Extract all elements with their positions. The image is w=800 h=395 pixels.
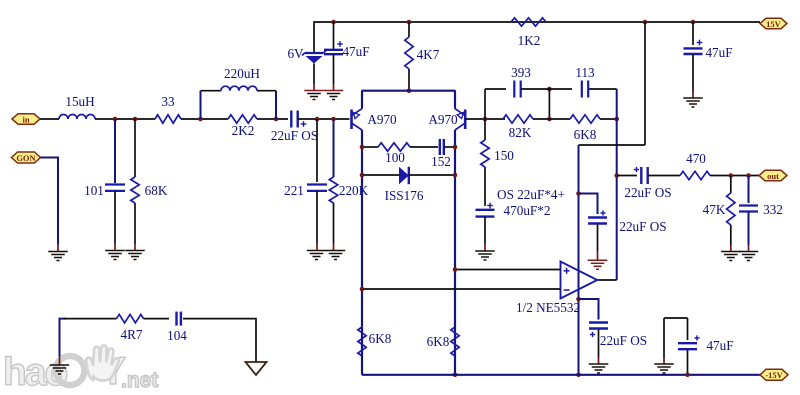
svg-text:6K8: 6K8 <box>427 334 450 349</box>
ground <box>588 260 608 269</box>
diode D2 ISS176 <box>399 167 409 184</box>
svg-text:15V: 15V <box>766 19 782 29</box>
wire <box>663 318 665 358</box>
resistor R12 6K8 <box>451 327 459 356</box>
svg-text:1K2: 1K2 <box>518 33 541 48</box>
wire <box>579 194 598 215</box>
junction <box>331 20 336 25</box>
svg-text:47uF: 47uF <box>705 45 732 60</box>
label R8 82K <box>509 125 532 140</box>
svg-text:4R7: 4R7 <box>121 327 143 342</box>
junction <box>360 145 365 150</box>
label Q2 A970 <box>428 112 458 127</box>
wire <box>275 91 277 119</box>
wire <box>484 167 486 206</box>
svg-text:OS 22uF*4+: OS 22uF*4+ <box>497 187 565 202</box>
ground stem <box>598 358 600 365</box>
resistor R2 2K2 <box>228 115 257 123</box>
label U1 1/2 NE5532 <box>516 300 580 315</box>
capacitor C5 152 <box>440 139 444 155</box>
ground <box>307 251 327 260</box>
label Q1 A970 <box>367 112 397 127</box>
wire <box>60 319 67 356</box>
wire <box>617 175 637 177</box>
junction <box>614 117 619 122</box>
ground <box>324 91 344 100</box>
wire <box>465 118 505 120</box>
ground <box>654 364 674 373</box>
ground <box>105 251 125 260</box>
svg-text:.net: .net <box>121 369 158 392</box>
resistor R8 82K <box>503 115 533 123</box>
svg-text:47K: 47K <box>703 202 726 217</box>
resistor R10 150 <box>481 140 489 167</box>
wire <box>144 318 170 320</box>
wire <box>257 90 276 92</box>
wire <box>454 130 456 375</box>
label R7 100 <box>385 150 405 165</box>
transistor Q2 A970 <box>455 109 465 130</box>
watermark haoDIY.net <box>3 345 158 394</box>
wire <box>333 55 335 85</box>
label R9 6K8 <box>574 127 597 142</box>
label D2 ISS176 <box>385 188 424 203</box>
wire <box>616 89 618 280</box>
wire <box>362 288 561 290</box>
label R12 6K8 <box>427 334 450 349</box>
svg-text:in: in <box>22 114 29 124</box>
junction <box>576 297 581 302</box>
svg-text:332: 332 <box>763 202 783 217</box>
svg-text:out: out <box>767 171 779 181</box>
junction <box>453 173 458 178</box>
wire <box>314 22 760 53</box>
wire <box>597 279 617 281</box>
svg-text:47uF: 47uF <box>706 338 733 353</box>
ground stem <box>333 84 335 91</box>
ground stem <box>316 244 318 251</box>
wire <box>64 318 117 320</box>
ground stem <box>663 358 665 365</box>
wire <box>687 350 689 375</box>
svg-text:220K: 220K <box>339 183 369 198</box>
junction <box>274 117 279 122</box>
svg-text:393: 393 <box>511 65 531 80</box>
ground stem <box>313 84 315 91</box>
svg-text:A970: A970 <box>367 112 397 127</box>
wire <box>333 22 335 49</box>
label R13 470 <box>686 151 706 166</box>
capacitor C8 470uF <box>476 203 495 217</box>
label L2 220uH <box>224 66 260 81</box>
wire <box>313 64 315 85</box>
capacitor C10 22uF OS <box>589 323 608 338</box>
label C12 332 <box>763 202 783 217</box>
op-amp U1 1/2 NE5532 <box>561 262 598 299</box>
label R3 68K <box>145 183 168 198</box>
wire <box>521 88 546 90</box>
ground <box>326 251 346 260</box>
ground <box>304 91 324 100</box>
wire <box>362 374 760 376</box>
wire <box>316 191 318 244</box>
ground stem <box>134 244 136 251</box>
capacitor C3 221 plates <box>307 185 327 191</box>
junction <box>691 20 696 25</box>
resistor R11 6K8 <box>358 327 366 356</box>
port 15V <box>760 18 787 29</box>
wire <box>41 158 59 245</box>
junction <box>113 117 118 122</box>
resistor R4 220K <box>329 177 337 203</box>
wire <box>692 22 694 45</box>
capacitor C12 332 <box>739 206 758 212</box>
junction <box>576 373 581 378</box>
resistor R7 100 <box>378 143 410 151</box>
label R10 150 <box>494 148 514 163</box>
capacitor C6 393 <box>514 81 520 98</box>
capacitor C14 47uF <box>678 335 700 349</box>
inductor L2 220uH <box>221 86 257 91</box>
resistor R9 6K8 <box>570 115 600 123</box>
svg-text:6V: 6V <box>287 46 304 61</box>
wire <box>362 146 378 148</box>
wire <box>333 119 335 177</box>
capacitor C9 22uF OS <box>588 210 607 223</box>
label C14 47uF <box>706 338 733 353</box>
wire <box>298 118 350 120</box>
wire <box>183 319 256 362</box>
junction <box>643 20 648 25</box>
junction <box>360 173 365 178</box>
svg-text:220uH: 220uH <box>224 66 260 81</box>
label C5 152 <box>431 154 451 169</box>
ground <box>589 364 609 373</box>
wire <box>316 119 318 182</box>
wire <box>579 144 646 146</box>
wire <box>40 118 59 120</box>
capacitor C15 104 <box>177 312 181 326</box>
resistor R5 1K2 <box>511 18 546 26</box>
wire <box>362 90 456 92</box>
wire <box>445 146 456 148</box>
label L1 15uH <box>65 94 95 109</box>
label C9 22uF OS <box>619 219 666 234</box>
label C2 101 <box>84 183 104 198</box>
label C8 OS 22uF*4+ <box>497 187 565 202</box>
svg-text:1/2 NE5532: 1/2 NE5532 <box>516 300 580 315</box>
capacitor C7 113 <box>582 81 588 98</box>
wire <box>484 217 486 244</box>
zener D1 6V <box>302 51 326 64</box>
svg-text:15uH: 15uH <box>65 94 95 109</box>
svg-text:22uF OS: 22uF OS <box>619 219 666 234</box>
ground stem <box>114 244 116 251</box>
junction <box>746 173 751 178</box>
ground stem <box>597 251 599 260</box>
wire <box>408 69 410 91</box>
svg-text:82K: 82K <box>509 125 532 140</box>
ground stem <box>57 245 59 252</box>
wire <box>134 119 136 177</box>
wire <box>578 145 580 375</box>
label R6 4K7 <box>417 47 440 62</box>
wire <box>361 91 363 109</box>
ground stem <box>59 356 61 365</box>
wire <box>687 318 689 340</box>
junction <box>547 87 552 92</box>
resistor R13 470 <box>680 171 710 179</box>
wire <box>454 91 456 109</box>
junction <box>198 117 203 122</box>
svg-text:152: 152 <box>431 154 451 169</box>
wire <box>114 119 116 183</box>
wire <box>748 176 750 204</box>
wire <box>200 91 202 119</box>
resistor R1 33 <box>155 115 181 123</box>
wire <box>730 225 732 245</box>
wire <box>362 174 399 176</box>
wire <box>410 146 438 148</box>
resistor R14 47K <box>727 193 735 225</box>
label C6 393 <box>511 65 531 80</box>
label D1 6V <box>287 46 304 61</box>
svg-text:68K: 68K <box>145 183 168 198</box>
label R14 47K <box>703 202 726 217</box>
junction <box>483 117 488 122</box>
wire <box>579 299 599 320</box>
label C13 47uF <box>705 45 732 60</box>
wire <box>533 118 570 120</box>
resistor R15 4R7 <box>117 314 144 322</box>
label C4 47uF <box>342 44 369 59</box>
port out <box>759 170 787 181</box>
port GON <box>12 152 41 163</box>
label C8 470uF*2 <box>504 203 551 218</box>
port in <box>12 114 40 125</box>
svg-text:6K8: 6K8 <box>369 331 392 346</box>
wire <box>664 317 688 319</box>
wire <box>408 22 410 37</box>
resistor R3 68K <box>131 177 139 203</box>
junction <box>407 88 412 93</box>
svg-text:6K8: 6K8 <box>574 127 597 142</box>
junction <box>133 117 138 122</box>
svg-text:101: 101 <box>84 183 104 198</box>
wire <box>598 329 600 358</box>
svg-text:A970: A970 <box>428 112 458 127</box>
junction <box>453 373 458 378</box>
wire <box>134 203 136 244</box>
svg-text:104: 104 <box>167 328 187 343</box>
junction <box>547 117 552 122</box>
wire <box>648 175 680 177</box>
wire <box>692 54 694 92</box>
wire <box>730 176 732 194</box>
ground stem <box>730 245 732 252</box>
junction <box>729 173 734 178</box>
wire <box>114 191 116 244</box>
capacitor C2 101 <box>105 185 125 191</box>
svg-text:22uF OS: 22uF OS <box>624 185 671 200</box>
junction <box>315 117 320 122</box>
junction <box>331 117 336 122</box>
transistor Q1 A970 <box>352 109 363 130</box>
wire <box>484 89 486 119</box>
wire <box>748 212 750 245</box>
inductor L1 15uH <box>59 115 95 120</box>
label C3 221 <box>284 183 304 198</box>
svg-text:GON: GON <box>16 153 36 163</box>
label R4 220K <box>339 183 369 198</box>
junction <box>614 173 619 178</box>
wire <box>589 88 617 90</box>
wire <box>95 118 155 120</box>
wire <box>409 174 455 176</box>
svg-text:4K7: 4K7 <box>417 47 440 62</box>
wire <box>485 88 506 90</box>
label R11 6K8 <box>369 331 392 346</box>
ground <box>739 252 759 261</box>
wire <box>201 90 222 92</box>
label C1 22uF OS <box>271 128 318 143</box>
junction <box>576 191 581 196</box>
wire <box>710 175 760 177</box>
ground <box>125 251 145 260</box>
label C10 22uF OS <box>600 333 647 348</box>
junction <box>453 145 458 150</box>
label R15 4R7 <box>121 327 143 342</box>
junction <box>360 287 365 292</box>
junction <box>407 20 412 25</box>
junction <box>685 373 690 378</box>
ground stem <box>484 244 486 251</box>
ground <box>721 252 741 261</box>
junction <box>453 267 458 272</box>
capacitor C13 47uF <box>684 40 703 54</box>
wire <box>455 269 561 271</box>
port -15V <box>760 369 788 380</box>
capacitor C1 22uF OS <box>291 111 306 128</box>
capacitor C4 47uF <box>324 41 343 54</box>
ground <box>50 365 70 374</box>
svg-text:150: 150 <box>494 148 514 163</box>
svg-text:470: 470 <box>686 151 706 166</box>
label R2 2K2 <box>232 123 255 138</box>
ground <box>683 98 703 107</box>
label R1 33 <box>161 94 175 109</box>
svg-text:221: 221 <box>284 183 304 198</box>
ground <box>48 252 68 261</box>
wire <box>257 118 288 120</box>
svg-text:113: 113 <box>575 65 595 80</box>
wire <box>548 89 550 119</box>
wire <box>361 130 363 375</box>
label C11 22uF OS <box>624 185 671 200</box>
capacitor C11 22uF OS <box>634 167 648 184</box>
resistor R6 4K7 <box>405 37 413 69</box>
ground <box>475 251 495 260</box>
wire <box>597 224 599 252</box>
svg-text:470uF*2: 470uF*2 <box>504 203 551 218</box>
wire <box>484 119 486 140</box>
wire <box>333 203 335 244</box>
svg-text:-15V: -15V <box>765 370 783 380</box>
svg-text:47uF: 47uF <box>342 44 369 59</box>
label R5 1K2 <box>518 33 541 48</box>
wire <box>600 118 617 120</box>
ground stem <box>692 92 694 99</box>
svg-text:ISS176: ISS176 <box>385 188 424 203</box>
earth ground <box>246 362 267 375</box>
svg-text:100: 100 <box>385 150 405 165</box>
svg-text:33: 33 <box>161 94 175 109</box>
svg-text:22uF OS: 22uF OS <box>271 128 318 143</box>
svg-text:22uF OS: 22uF OS <box>600 333 647 348</box>
wire <box>644 22 646 145</box>
wire <box>181 118 228 120</box>
label C15 104 <box>167 328 187 343</box>
wire <box>546 88 572 90</box>
ground stem <box>333 244 335 251</box>
svg-text:2K2: 2K2 <box>232 123 255 138</box>
label C7 113 <box>575 65 595 80</box>
ground stem <box>748 245 750 252</box>
